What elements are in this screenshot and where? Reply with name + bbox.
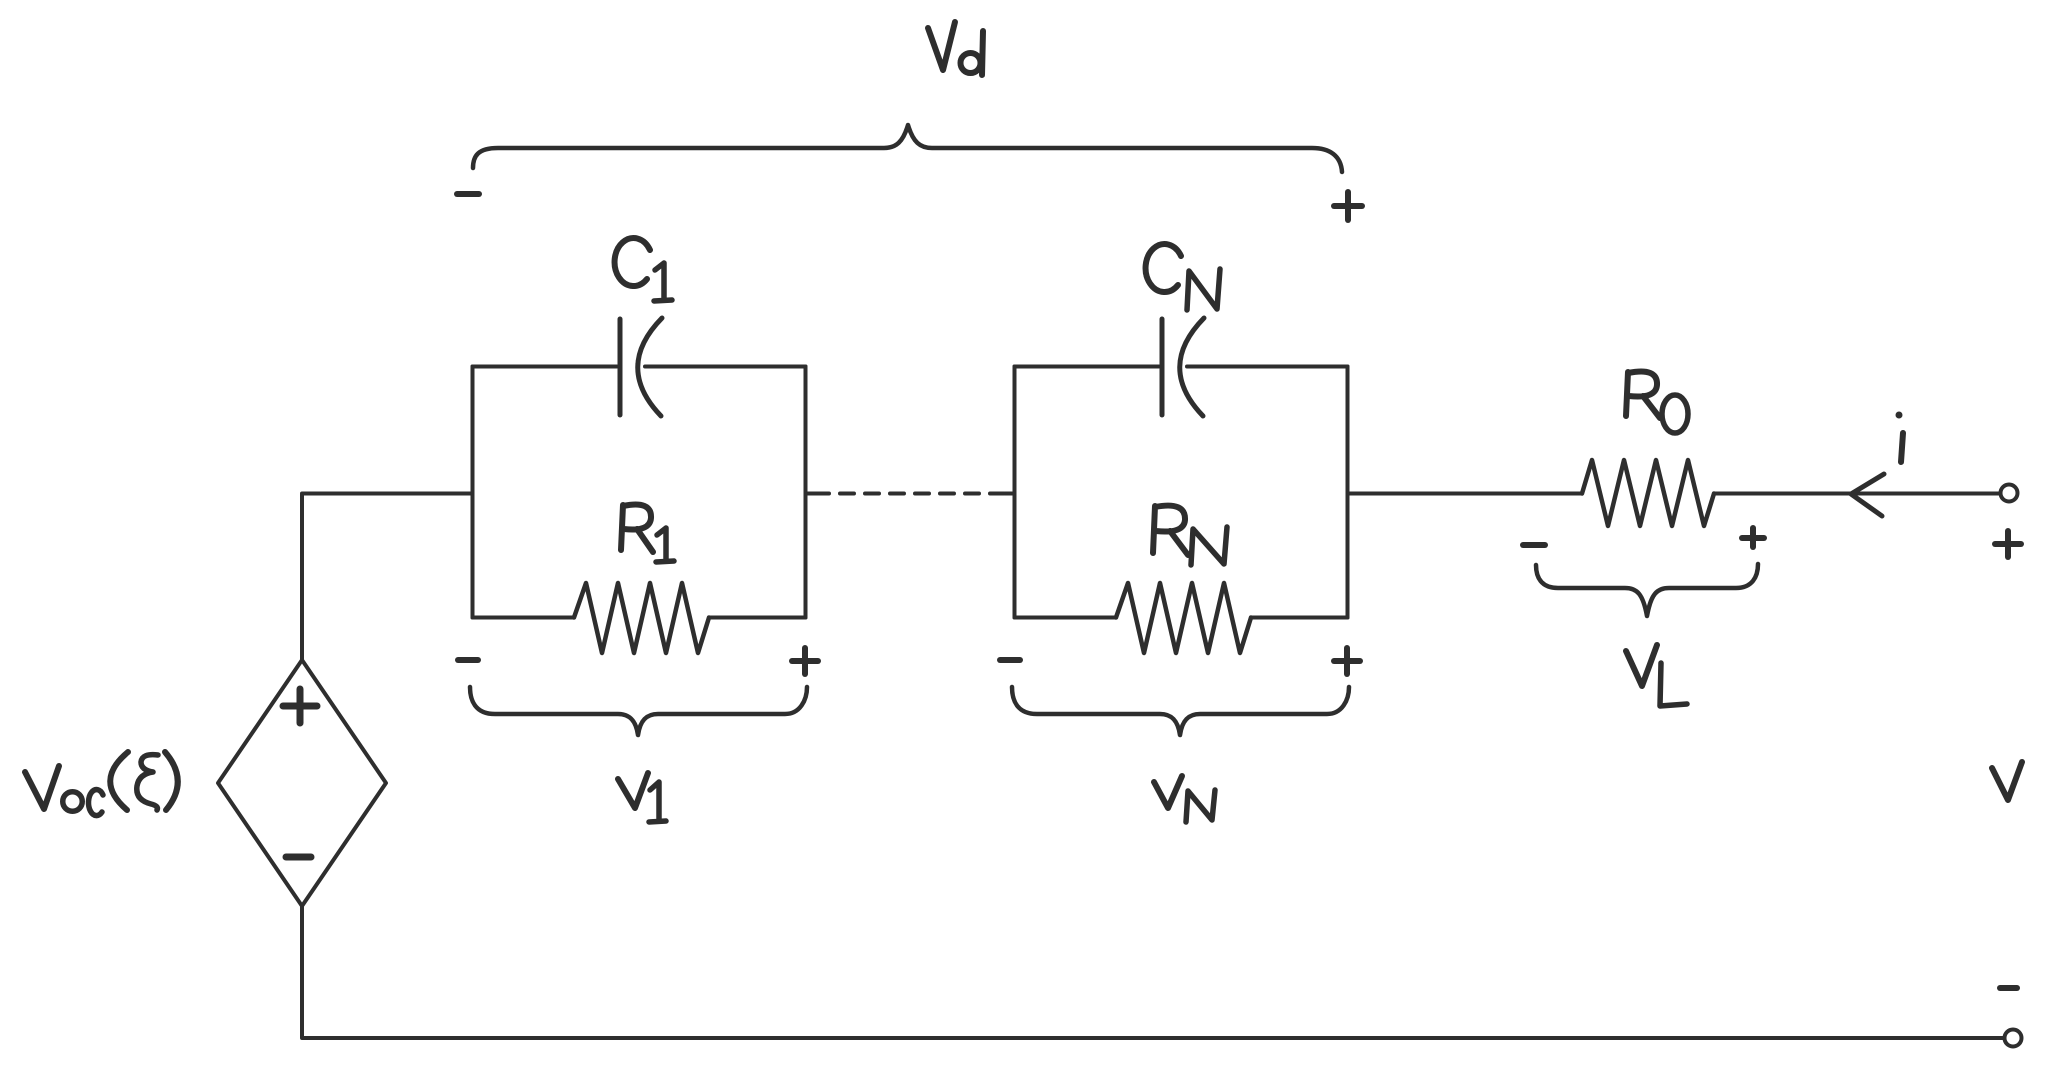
current arrow i bbox=[1851, 474, 1884, 516]
wire RC cell N to R0 bbox=[1348, 492, 1583, 496]
brace v1 bbox=[470, 687, 807, 735]
label v1 bbox=[618, 773, 648, 808]
label CN value bbox=[1146, 244, 1181, 292]
capacitor C1 bbox=[620, 318, 662, 416]
wire RCN bottom edge right bbox=[1251, 616, 1348, 620]
terminal bottom open circle bbox=[2005, 1030, 2022, 1047]
terminal plus mark bbox=[1995, 531, 2021, 557]
label vN plus bbox=[1334, 648, 1360, 674]
label vd bbox=[928, 22, 955, 70]
node box RNCN left edge bbox=[1013, 367, 1017, 618]
terminal minus mark bbox=[2000, 985, 2017, 991]
label RN value bbox=[1153, 506, 1188, 555]
label R0 value bbox=[1626, 372, 1660, 419]
label vN minus bbox=[1000, 657, 1020, 663]
resistor R0 bbox=[1582, 460, 1714, 526]
label v terminal bbox=[1992, 762, 2022, 800]
brace vN bbox=[1012, 687, 1349, 735]
brace vL bbox=[1536, 564, 1758, 616]
label v1 plus bbox=[792, 648, 818, 674]
source minus mark bbox=[286, 854, 311, 861]
brace vd bbox=[473, 125, 1342, 172]
label vN bbox=[1154, 776, 1182, 808]
node box R1C1 right edge bbox=[804, 367, 808, 618]
label v1 minus bbox=[458, 657, 478, 663]
label vL minus bbox=[1523, 542, 1545, 548]
wire from source top to RC cell 1 bbox=[302, 494, 473, 662]
wire dashed link between RC cells bbox=[806, 492, 816, 496]
label R1 value bbox=[621, 505, 653, 553]
wire RC1 bottom edge left bbox=[473, 616, 575, 620]
label C1 value bbox=[615, 238, 650, 286]
label voc(xi) bbox=[25, 766, 59, 809]
wire source bottom to bottom rail bbox=[302, 906, 2004, 1038]
wire RC1 top edge left segment bbox=[473, 365, 618, 369]
node box R1C1 left edge bbox=[471, 367, 475, 618]
wire RCN top edge right segment bbox=[1187, 365, 1348, 369]
text glyphs bbox=[25, 22, 2022, 822]
resistor RN bbox=[1116, 583, 1251, 653]
wire RCN top edge left segment bbox=[1015, 365, 1160, 369]
node box RNCN right edge bbox=[1346, 367, 1350, 618]
resistor R1 bbox=[574, 583, 709, 653]
wire RC1 bottom edge right bbox=[709, 616, 806, 620]
label i bbox=[1901, 433, 1903, 462]
label vL plus bbox=[1742, 528, 1764, 547]
label vd plus bbox=[1334, 192, 1362, 220]
wire RCN bottom edge left bbox=[1015, 616, 1117, 620]
capacitor CN bbox=[1162, 318, 1204, 416]
label vd minus bbox=[457, 191, 479, 197]
terminal top open circle bbox=[2001, 485, 2018, 502]
dependent source Voc diamond bbox=[218, 660, 386, 906]
wire R0 to top terminal bbox=[1714, 492, 2000, 496]
label vL bbox=[1626, 645, 1657, 686]
source plus mark bbox=[283, 689, 317, 723]
wire RC1 top edge right segment bbox=[645, 365, 806, 369]
